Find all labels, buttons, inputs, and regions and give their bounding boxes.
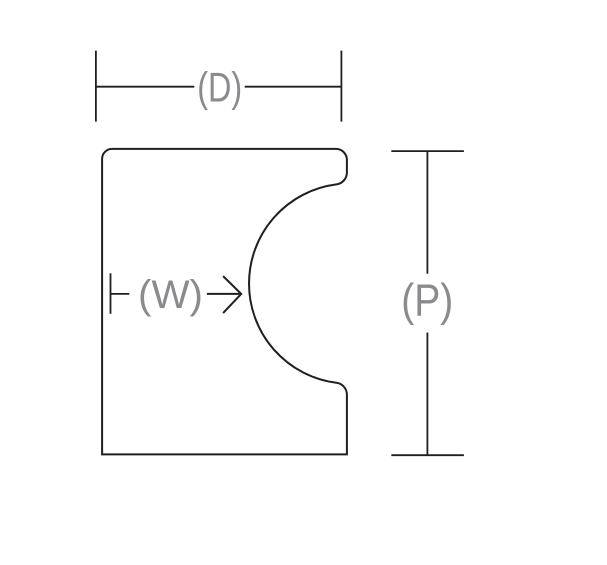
dimension P line upper segment	[426, 151, 428, 274]
dimension W leader line	[111, 293, 130, 295]
svg-text:(D): (D)	[197, 64, 242, 111]
knob body outline	[102, 149, 347, 455]
dimension D right tick	[340, 51, 342, 122]
svg-text:(P): (P)	[401, 275, 453, 326]
dimension D line left segment	[96, 86, 194, 88]
svg-text:(W): (W)	[138, 273, 203, 317]
dimension D left tick	[95, 51, 97, 122]
dimension P line lower segment	[426, 333, 428, 456]
dimension W arrow head	[223, 276, 241, 313]
dimension W tick	[110, 273, 112, 314]
dimension D line right segment	[245, 86, 342, 88]
dimension W arrow shaft	[207, 293, 240, 295]
dimension P bottom tick	[391, 454, 464, 456]
dimension P top tick	[391, 150, 464, 152]
